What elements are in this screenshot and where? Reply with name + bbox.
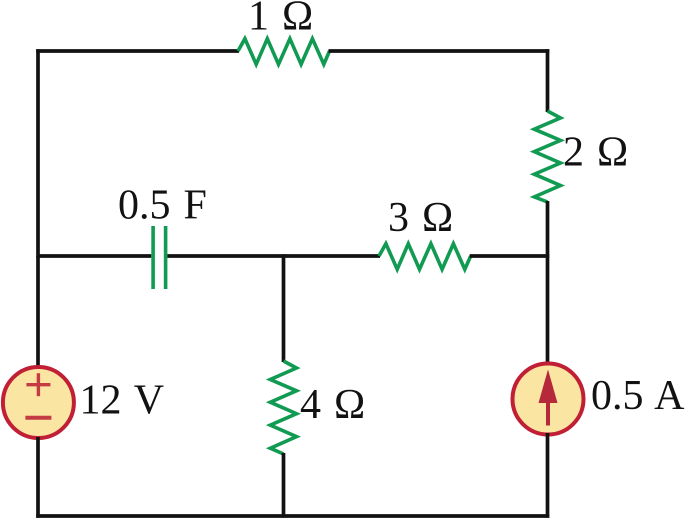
wire right vertical lower segment bbox=[546, 433, 550, 518]
capacitor C1 0.5 F plates bbox=[153, 226, 166, 289]
voltage source V1 12 V circle bbox=[3, 367, 74, 438]
wire top-right horizontal segment bbox=[329, 49, 550, 53]
wire middle horizontal left stub to capacitor bbox=[38, 254, 151, 258]
resistor R3 zigzag 3 ohm bbox=[379, 244, 471, 270]
wire middle horizontal right segment bbox=[470, 254, 550, 258]
current source I1 0.5 A circle bbox=[513, 364, 584, 435]
svg-text:2 Ω: 2 Ω bbox=[563, 130, 628, 176]
wire middle horizontal between capacitor and 3 ohm bbox=[167, 254, 380, 258]
wire left vertical upper segment bbox=[36, 49, 40, 258]
resistor R1 zigzag 1 ohm bbox=[238, 39, 330, 65]
svg-text:0.5 A: 0.5 A bbox=[591, 373, 685, 419]
wire left vertical segment above voltage source bbox=[36, 256, 40, 368]
svg-text:4 Ω: 4 Ω bbox=[300, 382, 365, 428]
wire middle vertical upper segment bbox=[282, 254, 286, 362]
wire right vertical middle segment bbox=[546, 201, 550, 365]
wire middle vertical lower segment bbox=[282, 453, 286, 518]
wire top-left horizontal segment bbox=[36, 49, 239, 53]
wire right vertical upper segment bbox=[546, 49, 550, 112]
wire bottom horizontal segment bbox=[36, 514, 549, 518]
svg-text:1 Ω: 1 Ω bbox=[248, 0, 313, 40]
plus sign of V1 bbox=[26, 373, 50, 396]
svg-text:0.5 F: 0.5 F bbox=[118, 183, 207, 229]
resistor R2 zigzag 2 ohm bbox=[534, 111, 560, 202]
svg-text:12 V: 12 V bbox=[80, 378, 165, 424]
resistor R4 zigzag 4 ohm bbox=[270, 361, 296, 454]
wire left vertical segment below voltage source bbox=[36, 437, 40, 518]
svg-text:3 Ω: 3 Ω bbox=[388, 195, 453, 241]
arrow of current source I1 bbox=[539, 370, 558, 426]
minus sign of V1 bbox=[25, 416, 51, 420]
